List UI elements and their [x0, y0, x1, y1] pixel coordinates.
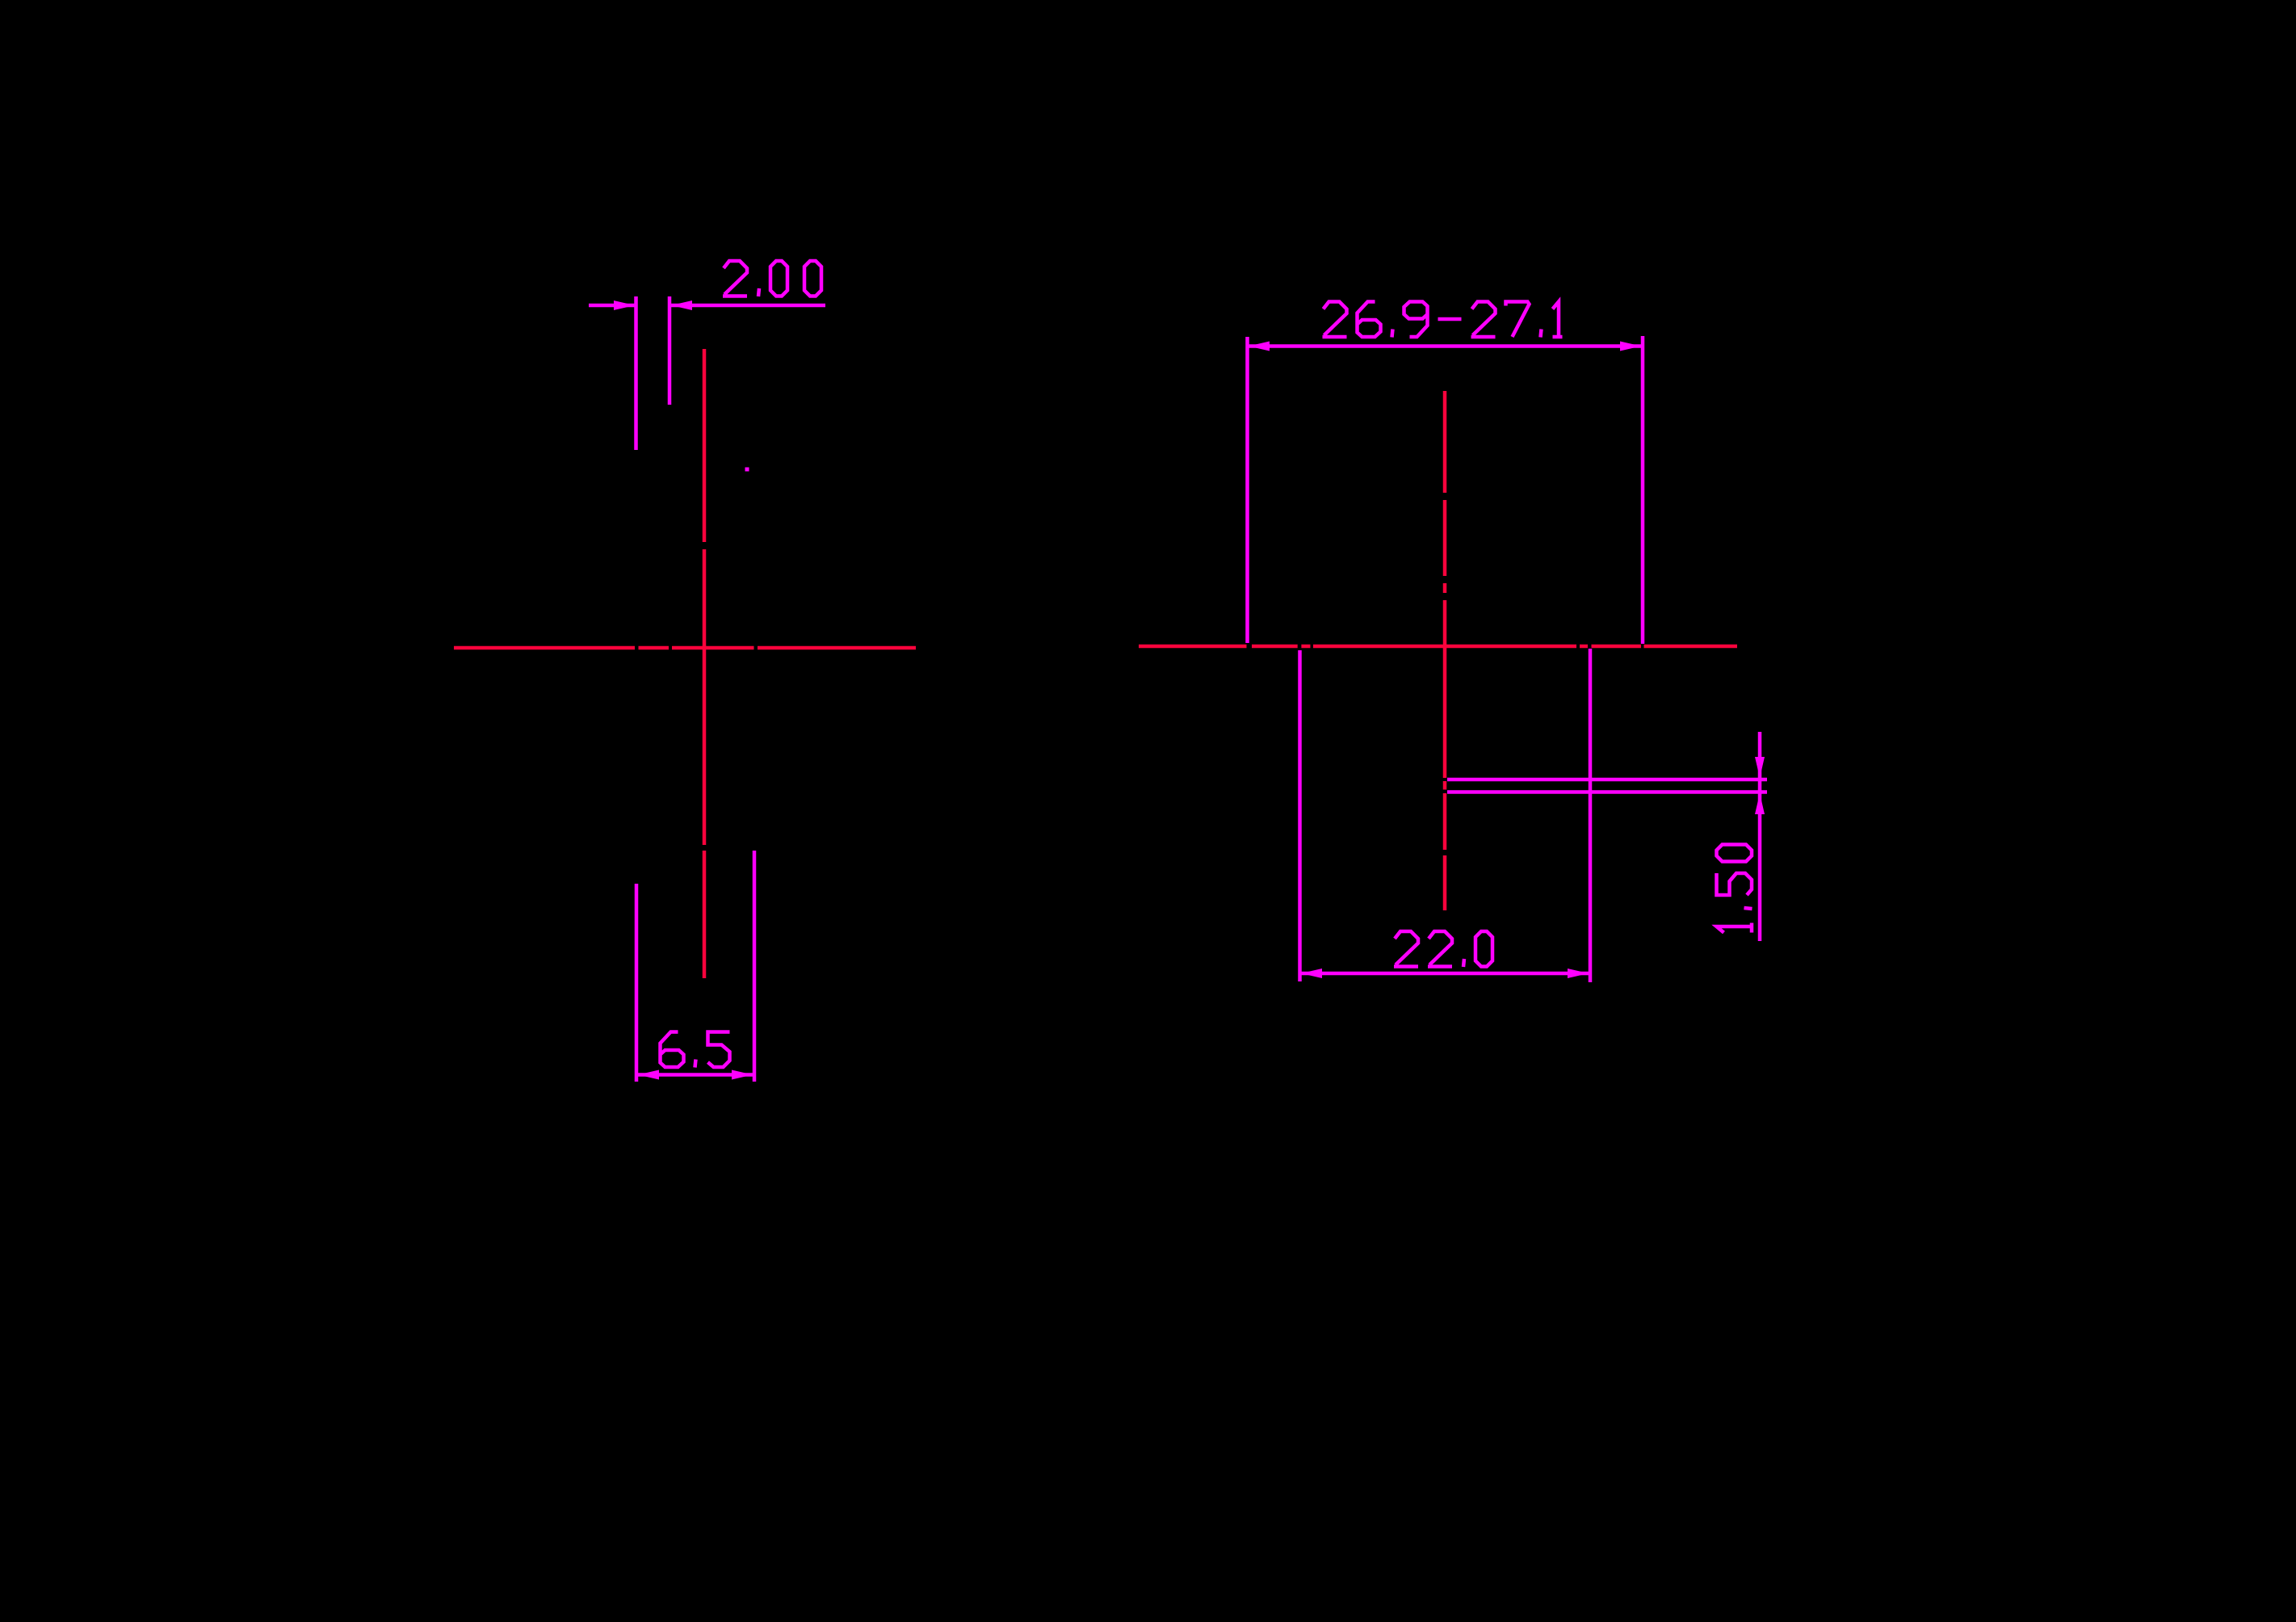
dimension 22.0 dim line [1301, 972, 1589, 976]
dimension text 6.5 [661, 1032, 730, 1068]
dimension 22.0 extension line left [1298, 650, 1302, 981]
dimension text 2.00 [723, 261, 821, 296]
dimension 26.9-27.1 right arrowhead [1620, 342, 1641, 351]
left view horizontal centerline (red, dash-dot) [454, 646, 916, 650]
dimension 1.50 lower arrowhead [1755, 793, 1765, 814]
slot upper object line [1447, 778, 1767, 782]
dimension 26.9-27.1 dim line [1249, 344, 1641, 348]
dimension 2.00 dim line right tail [671, 304, 825, 308]
right view horizontal centerline (red, dash-dot) [1139, 645, 1737, 649]
right view vertical centerline (red, dash-dot) [1443, 391, 1447, 910]
dimension 2.00 left arrowhead [614, 300, 635, 310]
dimension text 1.50 (rotated) [1717, 845, 1752, 933]
dimension 1.50 dim line [1758, 732, 1762, 941]
dimension 1.50 upper arrowhead [1755, 757, 1765, 778]
dimension text 22.0 [1394, 931, 1492, 967]
dimension 22.0 extension line right [1589, 649, 1593, 982]
dimension 2.00 extension line 2 [668, 296, 672, 405]
dimension 26.9-27.1 left arrowhead [1249, 342, 1270, 351]
dimension 22.0 right arrowhead [1568, 969, 1589, 978]
dimension 2.00 dim line left tail [589, 304, 635, 308]
dimension 6.5 dim line [636, 1073, 754, 1077]
dimension 6.5 extension line left [635, 884, 639, 1082]
dimension 6.5 right arrowhead [732, 1070, 753, 1080]
dimension 22.0 left arrowhead [1301, 969, 1322, 978]
stray magenta dot/node [745, 468, 749, 472]
dimension 2.00 extension line 1 [634, 296, 638, 450]
dimension 6.5 extension line right [753, 851, 757, 1082]
slot lower object line [1447, 790, 1767, 794]
dimension 6.5 left arrowhead [638, 1070, 659, 1080]
left view vertical centerline (red, dash-dot) [703, 349, 707, 978]
dimension 26.9-27.1 extension line left [1245, 337, 1249, 643]
dimension 2.00 right arrowhead [671, 300, 692, 310]
dimension 26.9-27.1 extension line right [1641, 336, 1645, 644]
dimension text 26.9-27.1 [1323, 302, 1563, 338]
